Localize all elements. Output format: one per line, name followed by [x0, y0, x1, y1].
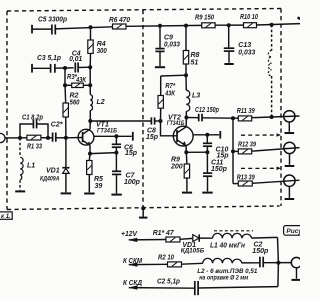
wire node A down — [64, 68, 66, 85]
capacitor C1 8.2p (bypass loop) — [20, 115, 48, 138]
resistor R11 39 — [233, 108, 255, 121]
wire base VT2 — [161, 121, 178, 136]
svg-text:КД105Б: КД105Б — [181, 248, 205, 255]
svg-text:к 1.: к 1. — [1, 214, 11, 220]
capacitor C4 0,01 — [69, 51, 82, 73]
dashed RF choke (phantom) — [268, 25, 271, 117]
svg-text:L1: L1 — [27, 162, 35, 169]
capacitor C10 15p — [203, 135, 229, 160]
svg-text:R2: R2 — [70, 93, 79, 100]
capacitor C2 5,1p — [157, 279, 278, 296]
node base VT2 — [159, 119, 163, 123]
node antenna join — [276, 261, 280, 265]
svg-text:0,033: 0,033 — [238, 50, 255, 57]
svg-text:C2*: C2* — [51, 121, 63, 128]
svg-text:+12V: +12V — [121, 231, 138, 238]
node rail/C13 junction — [227, 23, 231, 27]
wire collector to C12 — [186, 117, 198, 119]
wire VT1 side to chassis stub — [94, 135, 132, 137]
svg-text:39: 39 — [95, 183, 103, 190]
node choke bottom — [270, 115, 274, 119]
wire C12 to R-divider column — [202, 117, 233, 119]
wire R8 node to R7 — [161, 74, 186, 77]
node emitter VT1 — [88, 152, 92, 156]
wire emitter to C6/C7 column — [90, 153, 116, 154]
node B (R4/C4/L2 column) — [88, 65, 92, 69]
dashed shield link upper — [241, 133, 281, 137]
svg-text:L3: L3 — [192, 93, 200, 100]
resistor R7* 43K — [158, 76, 176, 121]
wire top rail R10 to supply edge — [257, 24, 301, 25]
resistor R5 39 — [84, 154, 103, 194]
capacitor C2 150p — [252, 242, 291, 268]
wire to VT1 base — [66, 137, 83, 139]
svg-text:C1 8.2p: C1 8.2p — [22, 115, 44, 122]
svg-text:R7*: R7* — [165, 83, 175, 90]
svg-text:ГТ341Б: ГТ341Б — [97, 128, 118, 134]
svg-text:150p: 150p — [252, 248, 269, 255]
node rail/C9 junction — [158, 24, 162, 28]
node chassis stub at C3 left — [31, 64, 33, 73]
inductor L2 (air core) — [203, 258, 260, 263]
resistor R13 39 — [233, 174, 255, 186]
wire C3 left lead — [32, 67, 51, 69]
svg-text:560: 560 — [70, 100, 80, 107]
capacitor C12 150p — [195, 107, 220, 122]
dashed shield link lower — [241, 167, 281, 171]
output connector 3 — [284, 175, 295, 199]
output connector 2 — [284, 142, 295, 166]
node C10/C11 junction — [205, 150, 209, 154]
capacitor C5 3300p — [38, 17, 68, 35]
wire right column down — [277, 237, 280, 262]
wire input to node IN — [5, 137, 20, 139]
svg-text:К СКМ: К СКМ — [123, 258, 142, 265]
chassis stub right of VT1 — [132, 132, 134, 141]
node R8 bottom — [184, 73, 188, 77]
resistor R12 39 — [233, 141, 256, 154]
resistor R9 150 (rail) — [195, 15, 215, 28]
wire R11 to output 1 — [252, 116, 300, 118]
wire C5 left lead — [32, 28, 52, 30]
wire K SKD up to join — [277, 263, 280, 287]
svg-text:L2: L2 — [97, 99, 105, 106]
box label k 1. — [0, 212, 12, 220]
wire emitter VT2 to C10/C11 — [186, 151, 207, 153]
svg-text:300: 300 — [97, 48, 107, 55]
svg-text:R1* 47: R1* 47 — [153, 230, 175, 237]
box label Risu(nok) — [284, 226, 303, 236]
svg-text:C13: C13 — [238, 42, 251, 49]
node A2 (R3 left) — [63, 83, 67, 87]
svg-text:R2 10: R2 10 — [158, 254, 174, 261]
ground of shield partition — [139, 206, 147, 217]
svg-text:на оправке Ø 2 мм: на оправке Ø 2 мм — [199, 275, 248, 282]
antenna connector — [291, 257, 301, 280]
node base VT1 (C2/R2/VD1) — [64, 136, 68, 140]
svg-text:R8: R8 — [191, 52, 200, 59]
resistor R1* 47 — [153, 230, 193, 242]
shield frame (dashed border of unit 1) — [7, 9, 281, 210]
node R11 column — [231, 116, 235, 120]
svg-text:R5: R5 — [94, 176, 103, 183]
node rail/R8 junction — [184, 24, 188, 28]
svg-text:200: 200 — [170, 164, 183, 171]
chassis stub right of VT2 — [219, 131, 221, 139]
inductor L1 40 mkGn with core — [210, 231, 278, 250]
svg-text:C5 3300p: C5 3300p — [38, 17, 68, 24]
capacitor C8 15p — [146, 117, 161, 140]
node R12 tap — [231, 149, 235, 153]
svg-text:R9 150: R9 150 — [195, 15, 214, 22]
resistor R2 560 — [63, 85, 80, 138]
svg-text:R4: R4 — [97, 41, 106, 48]
arrow K SKD — [123, 280, 195, 290]
resistor R1 33 — [20, 135, 48, 150]
node chassis stub at C5 left — [31, 25, 33, 34]
capacitor C9 0,033 — [155, 26, 180, 67]
node rail/choke junction — [270, 23, 274, 27]
svg-text:Рису: Рису — [286, 228, 300, 235]
svg-text:R10 10: R10 10 — [240, 14, 258, 21]
svg-text:R12 39: R12 39 — [238, 141, 256, 148]
capacitor C3 5,1p — [37, 55, 62, 73]
resistor R9 200 — [170, 152, 192, 192]
svg-text:100p: 100p — [124, 179, 141, 186]
svg-text:L1 40 мкГн: L1 40 мкГн — [210, 242, 246, 249]
capacitor C2* — [48, 121, 66, 141]
resistor R6 470 — [109, 17, 130, 29]
svg-text:0,01: 0,01 — [69, 56, 82, 63]
node C6 top — [114, 134, 118, 138]
shield partition (dashed divider) — [142, 10, 144, 208]
inductor L2 — [90, 85, 105, 121]
svg-text:R6 470: R6 470 — [109, 17, 130, 24]
resistor R8 51 — [183, 26, 199, 76]
resistor R10 10 — [240, 14, 258, 28]
svg-text:ГТ341Б: ГТ341Б — [167, 121, 185, 127]
diode VD1 KD105B — [181, 234, 213, 254]
node C6/C7 junction — [114, 151, 118, 155]
svg-text:К СКД: К СКД — [123, 280, 142, 287]
node collector VT2 — [184, 116, 188, 120]
varicap VD1 KD409A — [40, 138, 71, 194]
capacitor C11 150p — [202, 152, 227, 192]
transistor VT2 GT341B — [167, 114, 193, 152]
svg-text:C3 5,1p: C3 5,1p — [37, 55, 62, 62]
capacitor C7 100p — [111, 153, 140, 195]
wire VT2 side to chassis stub — [193, 134, 219, 136]
inductor L3 — [186, 75, 200, 117]
supply + mark at edge — [298, 18, 301, 20]
wire interstage to C8 — [90, 120, 151, 122]
node B2 (R3 right) — [88, 83, 92, 87]
wire node B down — [89, 67, 91, 85]
wire R13 to output 3 — [252, 180, 299, 183]
node A (C3/C4/R3/R2) — [63, 66, 67, 70]
arrow K SKM — [123, 258, 168, 267]
svg-text:R11 39: R11 39 — [237, 108, 255, 115]
node IN — [18, 136, 22, 140]
wire top rail R9 to R10 — [215, 24, 243, 26]
svg-text:C9: C9 — [164, 35, 173, 42]
svg-text:R13 39: R13 39 — [237, 174, 255, 181]
svg-text:150p: 150p — [211, 166, 228, 173]
node after R1 — [46, 136, 50, 140]
svg-text:51: 51 — [191, 60, 199, 67]
svg-text:43K: 43K — [164, 91, 176, 98]
wire C4 to node B — [78, 66, 90, 68]
node C10 top — [205, 133, 209, 137]
resistor R3* 43K — [65, 74, 90, 88]
coil note text — [197, 268, 257, 282]
svg-text:43K: 43K — [75, 77, 87, 84]
wire node A to C4 — [65, 67, 74, 69]
svg-text:C2 5,1p: C2 5,1p — [157, 279, 181, 286]
node emitter VT2 — [184, 150, 188, 154]
node collector VT1 — [88, 119, 92, 123]
wire divider column down — [232, 118, 234, 183]
svg-text:C12 150p: C12 150p — [195, 107, 220, 114]
svg-text:КД409А: КД409А — [40, 175, 60, 182]
output connector 1 — [284, 111, 295, 133]
node rail/R4 junction — [89, 25, 93, 29]
arrow +12V — [121, 231, 166, 242]
wire top rail R6 to R9 — [126, 24, 202, 27]
svg-text:15p: 15p — [125, 150, 138, 157]
svg-text:VD1: VD1 — [46, 168, 60, 175]
wire C3 to node A — [55, 67, 65, 69]
wire R12 to output 2 — [252, 148, 300, 152]
transistor VT1 GT341B — [78, 121, 118, 154]
resistor R2 10 — [158, 254, 203, 267]
svg-text:R1 33: R1 33 — [27, 144, 42, 151]
inductor L1 (dashed input coil) — [15, 138, 35, 192]
capacitor C6 15p — [112, 136, 138, 157]
svg-text:15p: 15p — [146, 134, 159, 141]
capacitor C13 0,033 — [224, 25, 256, 64]
svg-text:15p: 15p — [217, 152, 230, 159]
svg-text:R9: R9 — [171, 157, 180, 164]
resistor R4 300 — [88, 27, 107, 67]
svg-text:0,033: 0,033 — [164, 42, 180, 49]
wire top rail C5 to R6 — [55, 27, 112, 29]
input terminal — [0, 133, 5, 142]
